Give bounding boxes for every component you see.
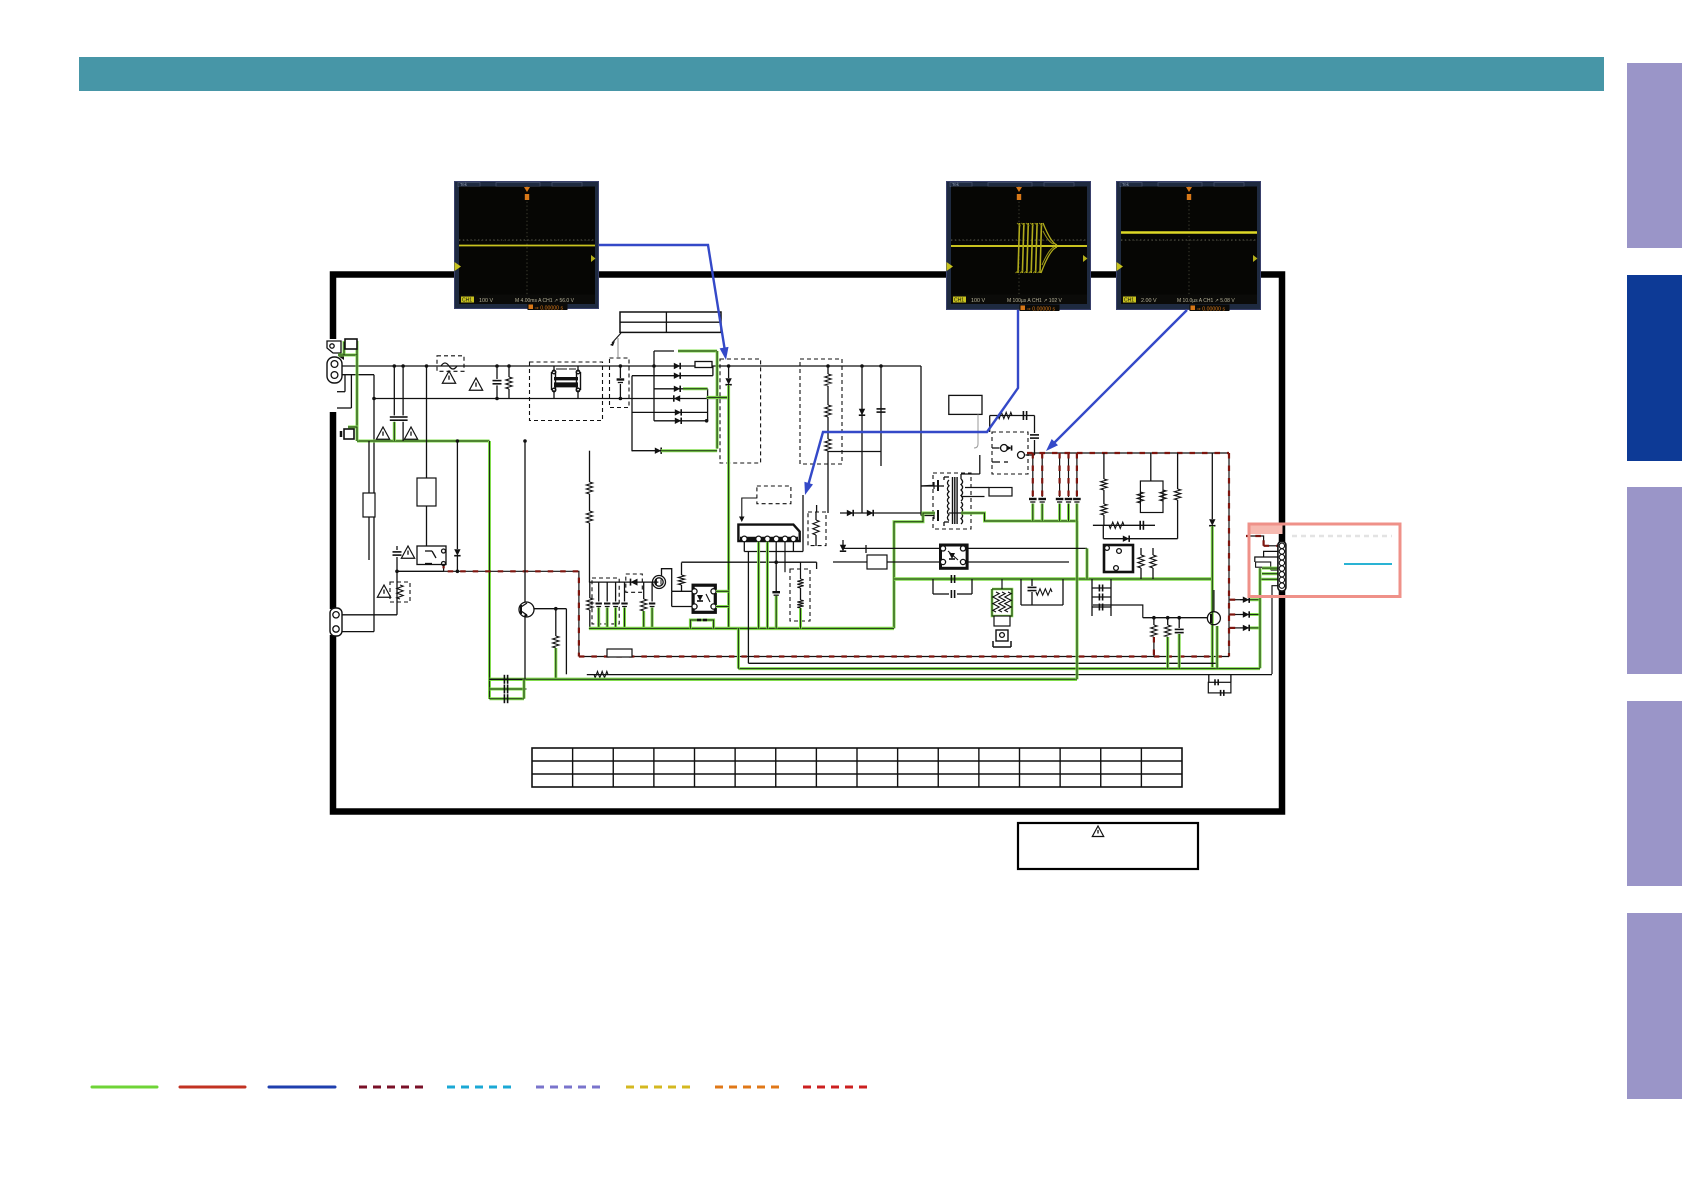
wire green HV rail down	[727, 385, 730, 628]
diode feed lines left of U4	[842, 540, 844, 545]
wire green rail 668	[738, 667, 1260, 670]
pin 7 CN1	[1279, 577, 1284, 582]
wire corner to black rail	[565, 609, 567, 675]
buzzer BZ1	[996, 630, 1008, 641]
ground lug	[327, 341, 341, 353]
warning triangle caution	[1092, 826, 1103, 837]
oscilloscope capture 2	[946, 181, 1091, 312]
pin 1 U1	[742, 536, 748, 542]
pin 6 CN1	[1279, 572, 1284, 577]
warning triangle 4	[469, 378, 482, 390]
resistor R3	[508, 366, 510, 377]
fuse box on PE	[345, 339, 357, 349]
sidebar tab 3	[1627, 487, 1682, 674]
capacitor CX3	[619, 366, 621, 378]
diode D relay	[456, 441, 458, 549]
transformer LF1 (common mode choke)	[553, 366, 555, 372]
resistor Rf1	[797, 579, 803, 588]
wire green PE drop	[356, 355, 359, 441]
legend dashed cyan	[447, 1086, 517, 1089]
dashed box diode	[626, 574, 643, 592]
wire green return left	[894, 513, 935, 628]
label dashed U1	[757, 486, 791, 504]
warning triangle relay	[401, 546, 414, 558]
resistor trio block	[992, 589, 1012, 616]
oscilloscope capture 3	[1116, 181, 1261, 312]
line filter dashed box	[530, 362, 603, 421]
wire primary connections	[921, 485, 929, 488]
diode Do3	[1230, 627, 1240, 629]
wire vertical 817	[816, 505, 818, 512]
resistor Rb1	[1151, 625, 1157, 637]
capacitor C10 smoothing	[1032, 453, 1034, 497]
capacitor C24	[624, 582, 626, 601]
capacitor Cb	[1178, 618, 1180, 628]
warning triangle 3	[442, 371, 455, 383]
oscilloscope capture 1	[454, 181, 599, 311]
capacitor C21	[606, 582, 608, 601]
thermistor dashed box	[390, 582, 410, 602]
wire green secondary	[961, 513, 1077, 521]
capacitor C20	[598, 582, 600, 601]
faint label row	[1292, 535, 1392, 538]
wire vertical to relay	[426, 366, 428, 546]
transformer T1 dashed box	[933, 473, 971, 529]
wire B+ red vertical right	[1228, 453, 1230, 657]
wire bridge verticals	[653, 351, 655, 421]
transformer T1	[952, 477, 954, 524]
wire vertical from inlet	[373, 375, 375, 632]
wire vertical 590	[589, 451, 591, 482]
wire Q4 base	[1143, 617, 1208, 619]
MOSFET Q1	[937, 480, 939, 491]
salmon highlight box	[1249, 524, 1400, 597]
wire vertical 525	[524, 441, 526, 603]
pin 3 U1	[765, 536, 771, 542]
pin 5 U1	[782, 536, 788, 542]
wire green riser 1077	[1076, 521, 1079, 679]
note table 2x2	[620, 312, 721, 332]
resistor R pullup	[681, 563, 683, 576]
label box	[949, 395, 982, 414]
arrow from scope2	[809, 310, 1019, 484]
fuse F1 dashed box	[437, 356, 464, 372]
transistor Q2	[519, 602, 534, 617]
arrow from scope3	[1053, 310, 1187, 444]
wire green rail 678 thick	[490, 678, 1078, 681]
svg-text:⇒ 0.00000 s: ⇒ 0.00000 s	[535, 305, 564, 311]
dashed box bleeder	[800, 359, 842, 464]
legend solid blue	[269, 1086, 335, 1089]
wire green bus 579	[894, 577, 1211, 580]
warning triangle thermistor	[377, 585, 390, 597]
wire vertical x369	[368, 441, 370, 560]
legend dashed gold	[626, 1086, 695, 1089]
resistor R fuse box on red	[607, 649, 632, 657]
svg-text:100 V: 100 V	[479, 298, 493, 304]
resistor Rf2	[797, 600, 803, 608]
wire pin1 red	[1264, 545, 1278, 547]
resistor R5b	[827, 386, 829, 405]
wire Q4 emitter green	[1216, 626, 1219, 668]
wire lower inlet line 2	[337, 631, 374, 633]
pin 4 CN1	[1279, 560, 1284, 565]
svg-text:CH1: CH1	[1124, 298, 1134, 304]
wire U1 pin wires	[743, 542, 745, 552]
diode Do2	[1230, 614, 1240, 616]
wire secondary top	[960, 474, 962, 479]
wire green bridge output	[678, 350, 717, 353]
svg-text:Tek: Tek	[952, 182, 960, 187]
wire aux h-line 538	[1103, 538, 1177, 540]
wire pin5-7 green	[1262, 567, 1278, 570]
connector AC inlet lower	[330, 608, 342, 636]
wire aux line 513	[840, 512, 931, 514]
svg-text:⇒ 0.00000 s: ⇒ 0.00000 s	[1027, 306, 1056, 312]
sidebar tab 2 (active)	[1627, 275, 1682, 461]
cap ladder 1092	[1091, 579, 1093, 616]
dashed box near U1	[808, 512, 826, 546]
warning triangle 2	[404, 427, 417, 439]
pin 2 U1	[756, 536, 762, 542]
wire U2 left pins	[672, 590, 692, 592]
svg-text:Tek: Tek	[1122, 182, 1130, 187]
sidebar tab 4	[1627, 701, 1682, 886]
MOSFET Q3	[653, 576, 666, 589]
sub loop caps on 579	[932, 579, 934, 594]
resistor R block 2	[363, 493, 375, 517]
pin 3 CN1	[1279, 554, 1284, 559]
triac block U2	[693, 585, 715, 612]
sidebar tab 5	[1627, 913, 1682, 1099]
wire aux h-line 525	[1093, 524, 1155, 526]
resistor Rb2	[1165, 625, 1171, 637]
schematic border frame	[333, 275, 1282, 812]
fuse F2	[348, 427, 357, 441]
snubber box B	[1208, 682, 1231, 693]
wire 548 down-green	[1086, 548, 1089, 579]
wire B+ red left branch	[444, 563, 579, 657]
wire green out vertical	[1259, 596, 1262, 669]
wire pin2	[1264, 551, 1278, 557]
connector AC inlet upper	[327, 357, 342, 383]
wire aux bus 582	[589, 581, 659, 583]
resistor R block	[417, 478, 436, 506]
resistor box left	[867, 555, 887, 569]
resistor divider drop 1	[1103, 453, 1105, 479]
pin 8 CN1	[1279, 583, 1284, 588]
svg-text:M 4.00ms A CH1 ↗ 56.0 V: M 4.00ms A CH1 ↗ 56.0 V	[515, 298, 575, 304]
wire B+ red bottom	[579, 656, 1229, 658]
relay RY1	[417, 546, 446, 565]
zener drop	[1211, 453, 1213, 519]
legend dashed maroon	[359, 1086, 425, 1089]
cyan link	[1344, 563, 1392, 565]
capacitor C25	[651, 582, 653, 601]
optocoupler PC1 dashed box	[992, 432, 1028, 474]
wire green riser to rail	[737, 628, 740, 668]
sidebar tab 1	[1627, 63, 1682, 248]
wire corner bus to switcher	[920, 366, 922, 486]
triac block U4	[941, 545, 968, 568]
capacitor C12 smoothing	[1059, 453, 1061, 497]
warning triangle 1	[376, 427, 389, 439]
wire secondary mid	[961, 496, 985, 498]
resistor R24	[643, 582, 645, 599]
resistor ladder left	[587, 598, 593, 610]
pin 5 CN1	[1279, 566, 1284, 571]
diode Do1	[1230, 599, 1240, 601]
dashed box snubber	[720, 359, 761, 463]
connector CN1	[1278, 542, 1286, 592]
wire black rail 674	[587, 674, 1272, 676]
wire inlet riser 2	[350, 375, 352, 408]
X-capacitor dashed box	[610, 358, 630, 408]
legend dashed orange	[715, 1086, 785, 1089]
svg-text:2.00 V: 2.00 V	[1141, 298, 1157, 304]
leader line from note table	[612, 333, 621, 343]
wire pin5 to resistor chain	[784, 542, 786, 573]
diode D8	[728, 366, 730, 378]
wire top link to D area	[816, 562, 818, 569]
wire green PE loop	[338, 343, 357, 356]
leader U1	[742, 498, 757, 519]
inductor L2 green box	[690, 620, 713, 628]
loop RC on 579	[1020, 579, 1022, 605]
wire lower inlet line 1	[337, 614, 397, 616]
capacitor C pin4	[775, 542, 777, 592]
dashed box feedback	[790, 569, 810, 621]
optocoupler PC1	[1001, 445, 1008, 452]
pin 4 U1	[773, 536, 779, 542]
wire vertical 862	[861, 366, 863, 452]
wire B+ red dashed bus	[1027, 452, 1229, 454]
svg-text:CH1: CH1	[462, 298, 472, 304]
wire U4 pins	[843, 547, 940, 549]
IC U1 power controller	[738, 525, 799, 541]
component box pin3	[1256, 562, 1271, 567]
wire U2 right pins green	[716, 590, 729, 593]
legend solid green	[92, 1086, 157, 1089]
pin 6 U1	[791, 536, 797, 542]
capacitor C3	[496, 366, 498, 379]
legend dashed red	[803, 1086, 873, 1089]
capacitor C relay	[396, 546, 398, 550]
capacitor bank rows	[490, 678, 525, 680]
transistor Q4	[1213, 590, 1215, 612]
legend dashed lavender	[536, 1086, 606, 1089]
wire inlet riser 1	[344, 375, 346, 392]
wire Q3 drain	[662, 569, 672, 592]
wire black riser	[747, 552, 749, 664]
wire main AC bus N	[374, 398, 729, 400]
parts table	[532, 748, 1182, 787]
wire main AC bus L	[340, 365, 921, 367]
resistor R5c	[827, 417, 829, 439]
resistor drop 3	[1177, 453, 1179, 489]
svg-text:CH1: CH1	[954, 298, 964, 304]
dashed box cap bank	[592, 578, 619, 624]
capacitor C11 smoothing	[1041, 453, 1043, 497]
resistor R5a	[827, 366, 829, 374]
svg-text:M 100µs A CH1 ↗ 102 V: M 100µs A CH1 ↗ 102 V	[1007, 298, 1063, 304]
leader to opto	[977, 414, 979, 444]
legend solid red	[180, 1086, 245, 1089]
arrow from scope1	[599, 245, 725, 348]
svg-text:100 V: 100 V	[971, 298, 985, 304]
wire pin8 black	[1272, 586, 1278, 674]
caution box	[1018, 823, 1198, 869]
bridge rectifier D1..D7	[654, 350, 674, 352]
wire green drop to cap bank	[488, 441, 491, 699]
pin 2 CN1	[1279, 549, 1284, 554]
header bar	[79, 57, 1604, 91]
crystal box	[994, 616, 1010, 626]
wire Q2 base line	[534, 608, 566, 610]
wire snubber loop	[989, 488, 1012, 497]
pin 1 CN1	[1279, 543, 1284, 548]
wire black rail 663	[748, 662, 1216, 664]
RC snubber	[990, 415, 1035, 417]
wire green bus PE horizontal	[357, 440, 490, 443]
capacitor C13 smoothing	[1068, 453, 1070, 497]
resistor R emitter	[555, 609, 557, 636]
resistor pair under U3	[1138, 555, 1144, 568]
wire green rail 628	[589, 627, 894, 630]
svg-text:⇒ 0.00000 s: ⇒ 0.00000 s	[1197, 306, 1226, 312]
capacitor C14 smoothing	[1076, 453, 1078, 497]
wire base feed	[1093, 605, 1143, 618]
capacitor C22	[615, 582, 617, 601]
svg-text:M 10.0µs A CH1 ↗ 5.08 V: M 10.0µs A CH1 ↗ 5.08 V	[1177, 298, 1235, 304]
wire vertical 881	[880, 366, 882, 452]
resistor pair box	[1150, 453, 1152, 481]
IC U3 block	[1104, 545, 1133, 572]
svg-text:Tek: Tek	[460, 182, 468, 187]
capacitor CX1	[393, 366, 395, 415]
capacitor CX2	[402, 366, 404, 415]
wire inlet line 2	[339, 374, 374, 376]
